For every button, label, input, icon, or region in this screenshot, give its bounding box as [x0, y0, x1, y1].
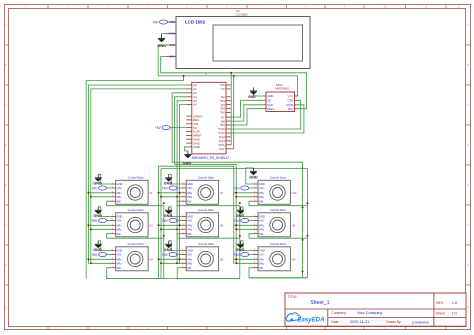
- wire U6 VRy: [161, 228, 182, 230]
- svg-text:GND: GND: [249, 176, 258, 180]
- svg-text:2: 2: [112, 253, 113, 255]
- svg-text:5: 5: [112, 200, 113, 202]
- wire A2: [172, 93, 186, 162]
- svg-text:VRy: VRy: [259, 261, 265, 265]
- wire U1 VRx: [88, 192, 111, 194]
- title block frame: [285, 293, 466, 326]
- svg-text:Control Stick: Control Stick: [128, 176, 144, 180]
- wire U4 VRx: [88, 258, 111, 260]
- svg-text:+5V: +5V: [117, 186, 122, 190]
- svg-text:GND: GND: [259, 249, 265, 253]
- svg-text:+5V: +5V: [187, 186, 192, 190]
- svg-text:GND: GND: [187, 215, 193, 219]
- svg-text:GND: GND: [193, 145, 201, 149]
- svg-text:ARDUINO_R3_SHIELD: ARDUINO_R3_SHIELD: [192, 156, 230, 160]
- svg-text:+5V: +5V: [117, 253, 122, 257]
- svg-text:SW: SW: [259, 232, 264, 236]
- svg-text:4: 4: [112, 262, 113, 264]
- wire U10 VRy: [236, 196, 253, 198]
- svg-text:5: 5: [182, 266, 183, 268]
- svg-text:4: 4: [112, 228, 113, 230]
- +5V flag at U8: [249, 220, 254, 222]
- svg-text:+5V: +5V: [162, 186, 169, 190]
- svg-text:*D6: *D6: [220, 111, 225, 115]
- svg-text:3: 3: [254, 224, 255, 226]
- svg-text:SW: SW: [259, 199, 264, 203]
- ground at U10: [246, 168, 254, 184]
- wire U5 VRx: [159, 258, 182, 260]
- svg-text:3: 3: [182, 258, 183, 260]
- svg-text:1: 1: [112, 249, 113, 251]
- svg-text:2: 2: [112, 187, 113, 189]
- svg-text:Drawn By:: Drawn By:: [386, 320, 401, 324]
- svg-text:1: 1: [254, 215, 255, 217]
- svg-text:VRy: VRy: [117, 195, 123, 199]
- svg-text:GND: GND: [164, 182, 173, 186]
- svg-text:MISO: MISO: [267, 107, 275, 111]
- wire SDA riser: [230, 73, 233, 145]
- svg-text:GND: GND: [93, 248, 102, 252]
- svg-text:U7: U7: [220, 191, 224, 195]
- svg-text:TX: TX: [221, 87, 225, 91]
- wire bus h1: [172, 162, 302, 278]
- svg-text:1: 1: [112, 215, 113, 217]
- ground at U8: [241, 207, 254, 217]
- svg-text:+5V: +5V: [162, 253, 169, 257]
- svg-text:NRF24L01: NRF24L01: [275, 86, 290, 90]
- svg-text:+5V: +5V: [155, 126, 162, 130]
- svg-text:Control Stick: Control Stick: [198, 208, 214, 212]
- wire U4 VRy: [91, 262, 112, 264]
- ground at U5: [169, 241, 182, 251]
- wire U7 VRy: [161, 196, 182, 198]
- wire U4 SW: [107, 268, 164, 279]
- svg-text:1: 1: [254, 183, 255, 185]
- svg-text:+5V: +5V: [259, 253, 264, 257]
- wire D7-CE: [231, 100, 263, 117]
- svg-text:3: 3: [112, 224, 113, 226]
- wire U5 SW: [177, 268, 240, 279]
- +5V flag at U7: [177, 187, 182, 189]
- ground below Arduino: [184, 147, 186, 151]
- svg-text:VRx: VRx: [259, 191, 265, 195]
- svg-text:VRy: VRy: [187, 227, 193, 231]
- svg-text:LCD1602: LCD1602: [236, 13, 249, 17]
- wire U9 SW: [249, 268, 307, 278]
- svg-text:1: 1: [112, 183, 113, 185]
- ground at U9: [241, 241, 254, 251]
- wire D8-SCK: [231, 105, 263, 121]
- svg-text:REV:: REV:: [436, 301, 444, 305]
- svg-text:3: 3: [182, 224, 183, 226]
- +5V flag at U5: [177, 254, 182, 256]
- svg-text:2: 2: [182, 219, 183, 221]
- wire U5 VRy: [161, 262, 182, 264]
- svg-text:GND: GND: [157, 43, 166, 48]
- wire bus h3: [159, 166, 234, 264]
- wire U6 VRx: [159, 224, 182, 226]
- svg-text:GND: GND: [93, 182, 102, 186]
- joystick module U10 (Control Stick): [258, 180, 290, 204]
- wire D10-CSN: [231, 100, 301, 129]
- ground at U4: [98, 241, 111, 251]
- svg-text:Date:: Date:: [331, 320, 339, 324]
- svg-text:U8: U8: [292, 223, 296, 227]
- svg-text:Control Stick: Control Stick: [270, 242, 286, 246]
- wire U8 VRy: [236, 228, 253, 230]
- wire A1 to col1 busB: [91, 89, 186, 264]
- svg-text:G: G: [467, 264, 469, 267]
- ground at LCD: [162, 34, 167, 39]
- svg-text:4: 4: [254, 262, 255, 264]
- svg-text:+5V: +5V: [234, 219, 241, 223]
- svg-text:SW: SW: [187, 232, 192, 236]
- svg-text:GND: GND: [117, 182, 123, 186]
- ground at U1: [98, 174, 111, 184]
- svg-text:GND: GND: [164, 214, 173, 218]
- svg-text:D: D: [467, 144, 469, 147]
- wire aux col2 left b: [160, 168, 162, 278]
- svg-text:5: 5: [254, 200, 255, 202]
- svg-text:+5V: +5V: [187, 219, 192, 223]
- svg-text:GND: GND: [187, 182, 193, 186]
- joystick module U8 (Control Stick): [258, 213, 290, 237]
- wire U8 SW: [249, 234, 307, 239]
- svg-text:VRx: VRx: [187, 191, 193, 195]
- svg-text:VRy: VRy: [187, 261, 193, 265]
- wire U10 VRx: [234, 192, 254, 194]
- svg-text:4: 4: [182, 195, 183, 197]
- +5V flag at U10: [249, 187, 254, 189]
- svg-text:2: 2: [254, 187, 255, 189]
- +5V flag at U3: [107, 220, 112, 222]
- svg-text:SCL: SCL: [169, 43, 175, 47]
- svg-text:3: 3: [254, 191, 255, 193]
- svg-text:H: H: [5, 306, 7, 309]
- wire D9-MISO: [231, 109, 263, 125]
- svg-text:VDD: VDD: [169, 20, 176, 24]
- +5V flag at U9: [249, 254, 254, 256]
- svg-text:3: 3: [254, 258, 255, 260]
- joystick module U6 (Control Stick): [186, 213, 218, 237]
- svg-text:+5V: +5V: [117, 219, 122, 223]
- junctions SW buses row 2: [163, 235, 165, 237]
- svg-text:U9: U9: [292, 257, 296, 261]
- svg-text:+5V: +5V: [152, 20, 159, 24]
- svg-text:Your Company: Your Company: [357, 310, 383, 315]
- svg-text:5: 5: [112, 232, 113, 234]
- joystick module U4 (Control Stick): [116, 247, 148, 271]
- svg-text:2: 2: [254, 253, 255, 255]
- svg-text:GND: GND: [117, 249, 123, 253]
- wire U7 SW: [177, 201, 240, 206]
- junctions column 2 VRx/VRy buses: [179, 192, 181, 194]
- wire aux col2 left a: [158, 166, 160, 278]
- wire U9 VRy: [236, 262, 253, 264]
- svg-text:VRy: VRy: [259, 195, 265, 199]
- svg-text:2020-11-21: 2020-11-21: [350, 319, 370, 324]
- svg-text:SW: SW: [117, 199, 122, 203]
- svg-text:VRy: VRy: [187, 195, 193, 199]
- joystick module U9 (Control Stick): [258, 247, 290, 271]
- svg-text:U4: U4: [149, 257, 153, 261]
- svg-text:5: 5: [254, 232, 255, 234]
- junctions column 3 VRx/VRy buses: [235, 192, 237, 194]
- svg-text:H: H: [467, 306, 469, 309]
- wire U1 VRy: [91, 196, 112, 198]
- wire D11-MOSI: [231, 105, 304, 133]
- svg-text:5: 5: [182, 232, 183, 234]
- svg-text:C: C: [467, 104, 469, 107]
- svg-text:4: 4: [254, 228, 255, 230]
- ground at NRF: [254, 91, 263, 96]
- svg-text:3: 3: [182, 191, 183, 193]
- svg-text:+5V: +5V: [234, 186, 241, 190]
- svg-text:VRx: VRx: [117, 191, 123, 195]
- svg-text:SCL: SCL: [219, 147, 225, 151]
- svg-text:VRx: VRx: [117, 257, 123, 261]
- svg-text:SW: SW: [187, 199, 192, 203]
- wire bottom bus left: [107, 278, 240, 280]
- svg-text:GND: GND: [93, 214, 102, 218]
- svg-text:2: 2: [254, 219, 255, 221]
- wire SCL riser: [231, 76, 234, 149]
- svg-text:4: 4: [182, 262, 183, 264]
- svg-text:A5: A5: [193, 103, 197, 107]
- svg-text:U10: U10: [292, 191, 297, 195]
- +5V flag at U6: [177, 220, 182, 222]
- junctions right bus: [302, 207, 304, 209]
- wire U6 SW: [177, 234, 240, 239]
- wire bus h4: [161, 167, 307, 169]
- svg-text:+5V: +5V: [259, 186, 264, 190]
- svg-text:U1: U1: [149, 191, 153, 195]
- svg-text:SW: SW: [259, 266, 264, 270]
- svg-text:VRy: VRy: [117, 261, 123, 265]
- svg-text:4: 4: [182, 228, 183, 230]
- svg-text:GND: GND: [248, 95, 256, 99]
- joystick module U7 (Control Stick): [186, 180, 218, 204]
- ground at U7: [169, 174, 182, 184]
- svg-text:EasyEDA: EasyEDA: [297, 316, 324, 323]
- wire A4 to col2 busA: [177, 101, 186, 264]
- LCD display U2 (LCD 1602): [176, 17, 310, 69]
- wire +5V to Arduino 5V: [169, 127, 187, 129]
- svg-text:3: 3: [112, 191, 113, 193]
- wire left outer bus: [86, 76, 183, 279]
- svg-text:3: 3: [112, 258, 113, 260]
- wire U1 SW: [107, 201, 164, 206]
- NRF24L01 module MR1: [266, 92, 295, 112]
- Arduino R3 shield U?: [192, 82, 226, 154]
- junctions LCD I2C risers: [230, 72, 232, 74]
- svg-text:SW: SW: [187, 266, 192, 270]
- svg-text:+5V: +5V: [162, 219, 169, 223]
- wire LCD SCL to NRF VCC: [158, 45, 298, 96]
- svg-text:GND: GND: [169, 32, 177, 36]
- svg-text:Control Stick: Control Stick: [128, 242, 144, 246]
- svg-text:GND: GND: [183, 161, 192, 166]
- wire SW bus col1: [163, 206, 165, 279]
- wire U3 VRy: [91, 228, 112, 230]
- svg-text:Control Stick: Control Stick: [270, 208, 286, 212]
- svg-text:+5V: +5V: [91, 253, 98, 257]
- wire LCD SDA to NRF IRQ: [161, 57, 307, 109]
- svg-text:GND: GND: [259, 215, 265, 219]
- svg-text:C: C: [5, 104, 7, 107]
- svg-text:LCD 1602: LCD 1602: [185, 20, 206, 25]
- svg-text:SW: SW: [117, 266, 122, 270]
- svg-text:Sheet:: Sheet:: [436, 311, 446, 315]
- svg-text:IRQ: IRQ: [288, 107, 294, 111]
- joystick module U5 (Control Stick): [186, 247, 218, 271]
- svg-text:CSN: CSN: [287, 99, 293, 103]
- svg-text:SW: SW: [117, 232, 122, 236]
- svg-text:5: 5: [254, 266, 255, 268]
- wire U9 VRx: [234, 258, 254, 260]
- svg-text:Sheet_1: Sheet_1: [310, 300, 329, 306]
- svg-text:5: 5: [182, 200, 183, 202]
- svg-text:VRy: VRy: [117, 227, 123, 231]
- svg-text:1: 1: [182, 183, 183, 185]
- wire A5 to col2 busB: [180, 105, 187, 265]
- svg-text:VRy: VRy: [259, 227, 265, 231]
- svg-text:GND: GND: [236, 214, 245, 218]
- joystick module U1 (Control Stick): [116, 180, 148, 204]
- ground at U6: [169, 207, 182, 217]
- svg-text:U3: U3: [149, 223, 153, 227]
- svg-text:GND: GND: [187, 249, 193, 253]
- svg-text:+5V: +5V: [187, 253, 192, 257]
- svg-text:1.0: 1.0: [452, 301, 457, 305]
- svg-text:Control Stick: Control Stick: [270, 176, 286, 180]
- wire bus h2: [175, 164, 237, 264]
- wire U10 SW: [249, 201, 307, 206]
- svg-text:VRx: VRx: [259, 223, 265, 227]
- svg-text:panasura: panasura: [412, 319, 429, 324]
- svg-text:D: D: [5, 144, 7, 147]
- svg-text:4: 4: [254, 195, 255, 197]
- svg-text:SDA: SDA: [169, 55, 175, 59]
- svg-text:G: G: [5, 264, 7, 267]
- svg-text:2: 2: [182, 253, 183, 255]
- svg-text:1: 1: [254, 249, 255, 251]
- svg-text:+5V: +5V: [234, 253, 241, 257]
- svg-text:1: 1: [182, 249, 183, 251]
- svg-text:VRx: VRx: [259, 257, 265, 261]
- +5V flag at U1: [107, 187, 112, 189]
- junctions SW buses row 1: [163, 202, 165, 204]
- svg-text:2: 2: [182, 187, 183, 189]
- ground at U3: [98, 207, 111, 217]
- svg-text:GND: GND: [259, 182, 265, 186]
- svg-text:1/1: 1/1: [452, 311, 457, 315]
- svg-text:VRx: VRx: [187, 257, 193, 261]
- svg-text:4: 4: [112, 195, 113, 197]
- svg-text:TITLE:: TITLE:: [288, 295, 298, 299]
- wire bottom bus right: [249, 277, 307, 279]
- wire A3: [175, 97, 187, 165]
- svg-text:5: 5: [112, 266, 113, 268]
- joystick module U3 (Control Stick): [116, 213, 148, 237]
- svg-text:Control Stick: Control Stick: [198, 242, 214, 246]
- svg-text:U5: U5: [220, 257, 224, 261]
- svg-text:2: 2: [112, 219, 113, 221]
- wire U7 VRx: [159, 192, 182, 194]
- EasyEDA logo: [286, 313, 300, 321]
- svg-text:1: 1: [182, 215, 183, 217]
- svg-text:U6: U6: [220, 223, 224, 227]
- svg-text:Control Stick: Control Stick: [198, 176, 214, 180]
- svg-text:VRx: VRx: [187, 223, 193, 227]
- svg-text:+5V: +5V: [91, 219, 98, 223]
- wire SW bus col3: [306, 168, 308, 277]
- svg-text:+5V: +5V: [259, 219, 264, 223]
- svg-text:VRx: VRx: [117, 223, 123, 227]
- +5V flag at U4: [107, 254, 112, 256]
- svg-text:GND: GND: [164, 248, 173, 252]
- junctions column 1 VRx/VRy buses: [87, 192, 89, 194]
- svg-text:GND: GND: [236, 248, 245, 252]
- svg-text:Company:: Company:: [331, 311, 346, 315]
- svg-text:Control Stick: Control Stick: [128, 208, 144, 212]
- svg-text:GND: GND: [117, 215, 123, 219]
- wire A0 to col1 busA: [88, 85, 186, 264]
- wire SW bus col2: [239, 206, 241, 279]
- wire U8 VRx: [234, 224, 254, 226]
- wire U3 VRx: [88, 224, 111, 226]
- wire U3 SW: [107, 234, 164, 239]
- svg-text:+5V: +5V: [91, 186, 98, 190]
- svg-text:CE: CE: [267, 99, 271, 103]
- frame ticks and labels: [47, 5, 49, 9]
